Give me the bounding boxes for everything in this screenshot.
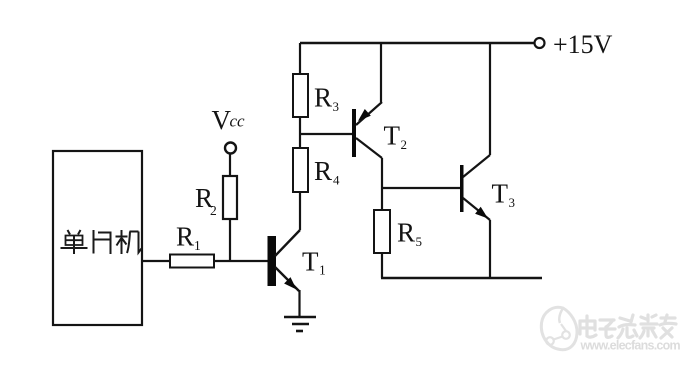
svg-text:T: T bbox=[302, 247, 319, 277]
svg-text:4: 4 bbox=[333, 173, 340, 188]
wire rail to R3 bbox=[299, 43, 301, 74]
watermark text 电子发烧友 bbox=[580, 315, 676, 338]
wire rail to T3 collector bbox=[489, 43, 491, 155]
wire rail to T2 emitter bbox=[380, 43, 382, 102]
svg-text:cc: cc bbox=[230, 112, 246, 131]
wire T2 collector to R5 bbox=[381, 158, 383, 210]
resistor R3 bbox=[293, 74, 308, 117]
wire box to R1 bbox=[142, 260, 170, 262]
wire T3 emitter to bottom wire bbox=[489, 220, 491, 278]
terminal Vcc bbox=[225, 143, 236, 154]
svg-text:2: 2 bbox=[210, 203, 217, 218]
svg-text:R: R bbox=[176, 222, 194, 252]
svg-text:3: 3 bbox=[509, 195, 516, 210]
microcontroller box U (单片机) bbox=[53, 151, 142, 325]
ground bbox=[284, 317, 316, 331]
power rail +15V bbox=[300, 42, 535, 45]
wire R1 to T1 base bbox=[214, 260, 268, 262]
wire R2 to base node bbox=[229, 219, 231, 261]
svg-text:T: T bbox=[492, 179, 509, 209]
bottom output wire bbox=[381, 277, 542, 280]
svg-text:T: T bbox=[384, 121, 401, 151]
svg-text:www.elecfans.com: www.elecfans.com bbox=[580, 339, 681, 353]
svg-text:R: R bbox=[314, 156, 332, 186]
svg-text:1: 1 bbox=[194, 238, 201, 253]
wire R3 to R4 bbox=[299, 117, 301, 148]
label 单片机 (drawn strokes) bbox=[61, 230, 142, 254]
transistor T3 bbox=[460, 155, 490, 220]
resistor R1 bbox=[170, 255, 214, 268]
wire T1 collector to R4 bbox=[299, 191, 301, 230]
svg-text:R: R bbox=[397, 218, 415, 248]
resistor R2 bbox=[223, 176, 237, 219]
terminal +15V bbox=[535, 38, 545, 48]
svg-text:5: 5 bbox=[416, 234, 423, 249]
svg-text:+15V: +15V bbox=[553, 30, 613, 59]
watermark logo bbox=[541, 307, 577, 349]
resistor R4 bbox=[293, 148, 308, 192]
wire node to T2 base bbox=[300, 133, 352, 135]
svg-text:2: 2 bbox=[401, 137, 408, 152]
wire T1 emitter to ground bbox=[298, 290, 300, 317]
wire T2 collector to T3 base bbox=[382, 187, 460, 189]
svg-text:R: R bbox=[314, 83, 332, 113]
resistor R5 bbox=[374, 210, 390, 253]
wire R5 to bottom wire bbox=[381, 253, 383, 278]
transistor T2 bbox=[352, 102, 382, 158]
wire Vcc to R2 bbox=[229, 154, 231, 177]
transistor T1 bbox=[268, 230, 301, 291]
svg-text:1: 1 bbox=[319, 263, 326, 278]
svg-text:3: 3 bbox=[333, 99, 340, 114]
svg-text:V: V bbox=[212, 105, 232, 135]
